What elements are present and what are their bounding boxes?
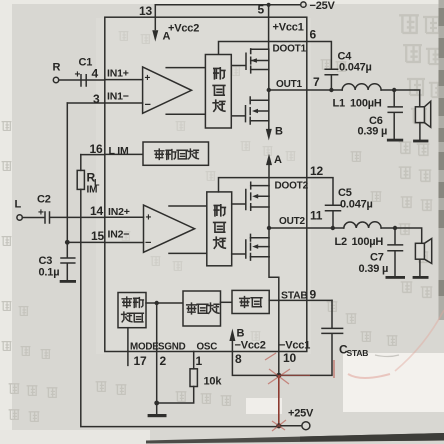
svg-text:IN2+: IN2+ [108,206,130,218]
svg-text:C2: C2 [37,194,51,206]
svg-text:DOOT2: DOOT2 [275,181,309,192]
svg-text:DOOT1: DOOT1 [273,44,307,55]
svg-text:+Vcc1: +Vcc1 [273,22,304,34]
svg-text:L2: L2 [335,236,348,248]
svg-text:+: + [146,213,152,224]
svg-text:2: 2 [160,354,167,368]
svg-text:A: A [274,154,282,166]
svg-text:1: 1 [196,354,203,368]
svg-text:−: − [145,99,151,111]
svg-text:8: 8 [235,352,242,366]
svg-text:10k: 10k [204,376,223,388]
svg-text:B: B [275,126,283,138]
svg-text:11: 11 [310,209,323,223]
svg-text:OUT2: OUT2 [279,216,306,227]
svg-text:9: 9 [310,288,317,302]
svg-text:L IM: L IM [109,145,129,157]
svg-text:IM: IM [87,185,98,196]
svg-text:C1: C1 [79,57,93,69]
svg-text:IN1−: IN1− [107,91,129,103]
svg-text:7: 7 [313,75,320,89]
svg-text:100µH: 100µH [350,98,382,110]
svg-text:C7: C7 [370,252,384,264]
svg-text:17: 17 [134,354,147,368]
svg-text:+Vcc2: +Vcc2 [168,23,199,35]
svg-text:3: 3 [93,92,100,106]
svg-text:C3: C3 [39,255,53,267]
svg-text:SGND: SGND [158,342,186,353]
svg-text:C5: C5 [338,187,352,199]
svg-text:14: 14 [90,204,103,218]
svg-text:+: + [145,73,151,84]
svg-text:+25V: +25V [288,408,314,420]
svg-text:−Vcc2: −Vcc2 [235,340,266,352]
svg-text:6: 6 [310,28,317,42]
svg-text:12: 12 [310,164,323,178]
svg-text:100µH: 100µH [352,236,384,248]
svg-text:R: R [53,62,61,74]
svg-text:+: + [38,208,44,219]
svg-text:5: 5 [258,3,265,17]
svg-text:15: 15 [91,229,104,243]
svg-text:L1: L1 [333,98,346,110]
svg-text:13: 13 [139,4,152,18]
svg-text:0.047µ: 0.047µ [340,199,373,211]
svg-text:16: 16 [90,142,103,156]
svg-text:0.047µ: 0.047µ [339,62,372,74]
svg-text:0.1µ: 0.1µ [39,267,60,279]
svg-text:MODE: MODE [130,342,159,353]
svg-text:STAB: STAB [281,291,308,302]
svg-text:0.39 µ: 0.39 µ [358,126,388,138]
svg-text:+: + [75,70,81,81]
svg-text:OSC: OSC [197,342,218,353]
svg-text:IN2−: IN2− [108,229,130,241]
svg-text:STAB: STAB [347,348,369,358]
svg-text:L: L [15,199,22,211]
svg-text:IN1+: IN1+ [107,68,129,80]
svg-text:4: 4 [92,67,99,81]
svg-text:−: − [145,237,151,249]
svg-text:OUT1: OUT1 [276,79,303,90]
svg-text:−25V: −25V [310,0,336,12]
svg-text:−Vcc1: −Vcc1 [279,340,310,352]
svg-text:10: 10 [283,351,296,365]
svg-text:B: B [237,328,245,340]
svg-text:0.39 µ: 0.39 µ [359,263,389,275]
